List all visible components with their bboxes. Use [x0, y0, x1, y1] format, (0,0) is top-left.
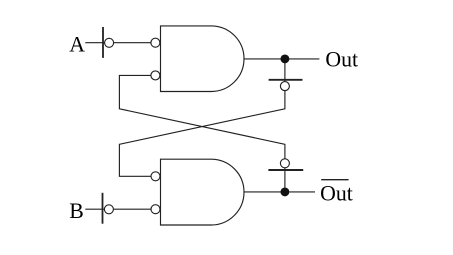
svg-text:B: B [69, 199, 84, 223]
svg-text:Out: Out [325, 47, 358, 71]
svg-text:A: A [69, 33, 85, 57]
svg-text:Out: Out [320, 182, 353, 206]
